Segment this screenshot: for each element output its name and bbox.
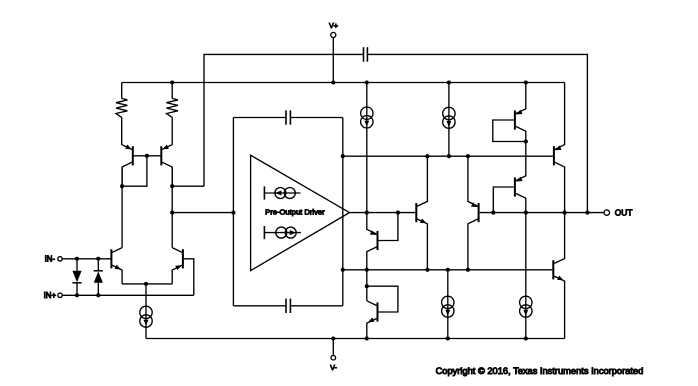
svg-text:V+: V+: [329, 21, 338, 30]
svg-text:Pre-Output Driver: Pre-Output Driver: [265, 207, 325, 216]
svg-text:Copyright © 2016, Texas Instru: Copyright © 2016, Texas Instruments Inco…: [436, 366, 644, 376]
svg-text:V-: V-: [330, 363, 337, 372]
svg-text:OUT: OUT: [615, 208, 633, 218]
svg-text:IN-: IN-: [45, 255, 56, 264]
svg-text:IN+: IN+: [44, 291, 57, 300]
